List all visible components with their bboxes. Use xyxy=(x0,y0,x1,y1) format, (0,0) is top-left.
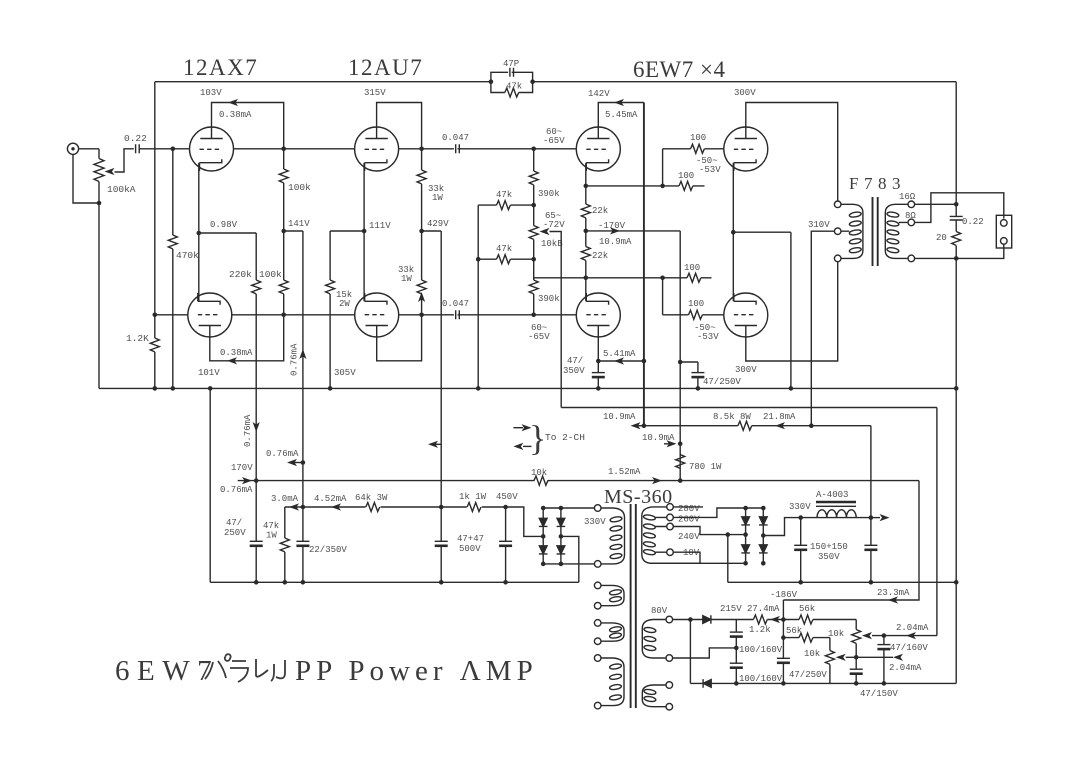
node 0.047 upper junction xyxy=(531,147,536,152)
svg-text:470k: 470k xyxy=(176,250,199,261)
wire V3 cathode column with 22k pair xyxy=(585,163,587,302)
wire ground rail A xyxy=(99,387,956,389)
capacitor 22/350V xyxy=(296,541,309,546)
wire V4a plate to OPT xyxy=(746,103,838,202)
resistor 1.2k bias xyxy=(753,615,767,624)
tube V4b 6EW7 power lower xyxy=(724,293,768,337)
tube V3b 6EW7 driver lower xyxy=(576,293,620,337)
svg-text:300V: 300V xyxy=(735,365,757,375)
svg-text:23.3mA: 23.3mA xyxy=(877,588,910,598)
diode bridge1 LT xyxy=(539,518,548,526)
resistor 33k 1W upper xyxy=(417,149,426,231)
node 47k column ground xyxy=(476,386,481,391)
arrow 0.38mA plate V1a xyxy=(228,99,238,106)
svg-text:3.0mA: 3.0mA xyxy=(271,494,299,504)
node border PSU rail xyxy=(954,580,959,585)
node 47P left xyxy=(489,79,494,84)
node 47/250V left rail xyxy=(254,580,259,585)
wire 141V column xyxy=(302,231,304,541)
arrow 0.76mA stub xyxy=(290,462,303,464)
node V2b plate row xyxy=(419,313,424,318)
potentiometer 10k lower xyxy=(825,638,845,684)
jack terminal bottom xyxy=(1001,238,1008,245)
svg-text:100/160V: 100/160V xyxy=(739,645,783,655)
arrow 5.41mA xyxy=(614,357,624,364)
node bridge2 mid-left xyxy=(743,532,748,537)
wire wiper to bias rail xyxy=(550,232,562,408)
resistor 390k upper xyxy=(529,171,538,185)
svg-text:141V: 141V xyxy=(288,219,310,229)
resistor 33k 1W lower xyxy=(417,231,426,315)
svg-text:47k: 47k xyxy=(496,244,512,254)
wire 47/150V xyxy=(855,657,857,683)
svg-text:10.9mA: 10.9mA xyxy=(599,237,632,247)
diode bridge2 LB xyxy=(741,545,750,553)
svg-text:47k: 47k xyxy=(263,521,279,531)
arrow 0.76mA down tail xyxy=(253,422,260,432)
capacitor 47+47 500V b xyxy=(499,541,512,546)
node grid V1 xyxy=(171,147,176,152)
arrow 21.8mA xyxy=(775,422,785,429)
arrow 0.76mA on 170V line xyxy=(242,477,252,484)
node bridge2 mid-right xyxy=(761,533,766,538)
resistor 100 grid stopper V4a xyxy=(663,144,725,153)
svg-text:150+150: 150+150 xyxy=(810,542,848,552)
node wiper1 cap xyxy=(882,633,887,638)
node 64k line to 429V column xyxy=(439,505,444,510)
wire jack ground side xyxy=(73,154,99,203)
node feedback to grid row xyxy=(153,313,158,318)
wire 8.5k line xyxy=(644,425,871,427)
capacitor 150+150 a xyxy=(794,545,807,550)
svg-text:350V: 350V xyxy=(818,552,840,562)
svg-text:100k: 100k xyxy=(288,182,311,193)
node V3b plate xyxy=(596,359,601,364)
svg-text:0.047: 0.047 xyxy=(442,133,469,143)
arrow 10.9mA into supply column xyxy=(633,425,644,427)
svg-text:305V: 305V xyxy=(334,368,356,378)
wire 450V to bridge1 xyxy=(506,507,544,536)
arrow B+ out xyxy=(871,517,880,519)
node 141V column to 64k line xyxy=(301,505,306,510)
node bridge1 mid-right xyxy=(559,534,564,539)
svg-text:111V: 111V xyxy=(369,221,391,231)
svg-text:1W: 1W xyxy=(266,531,277,541)
svg-text:100: 100 xyxy=(690,133,706,143)
node cap 150 a ground xyxy=(798,580,803,585)
wire plate row to cap 0.047 xyxy=(398,148,534,150)
wire bias feed column xyxy=(936,408,938,636)
node 47/250V right ground xyxy=(696,386,701,391)
capacitor 150+150 b xyxy=(864,545,877,550)
wire 310V column xyxy=(811,231,834,426)
svg-text:64k 3W: 64k 3W xyxy=(355,493,388,503)
arrow 2.04mA upper xyxy=(906,632,916,639)
wire 47/250V bias to rail xyxy=(782,663,784,684)
arrow 10.9mA into 780 node xyxy=(664,443,673,445)
node 47k bleeder rail xyxy=(283,580,288,585)
wire 47k column xyxy=(477,205,479,388)
node bridge2 top xyxy=(743,506,748,511)
wire cathode row upper to link column xyxy=(586,185,663,187)
wire V4b plate to OPT xyxy=(746,262,838,361)
node link upper xyxy=(660,184,665,189)
bridge1 mid-right wire xyxy=(561,536,579,582)
wire ground drop column xyxy=(209,388,211,582)
arrow 0.38mA V1b xyxy=(227,357,237,364)
svg-text:780 1W: 780 1W xyxy=(689,462,722,472)
svg-text:0.22: 0.22 xyxy=(962,217,984,227)
svg-text:8Ω: 8Ω xyxy=(905,211,916,221)
svg-text:47P: 47P xyxy=(503,59,519,69)
svg-text:310V: 310V xyxy=(808,220,830,230)
wire pot wiper to cap xyxy=(115,149,134,172)
diode bridge2 LT xyxy=(741,517,750,525)
svg-text:315V: 315V xyxy=(364,88,386,98)
svg-text:20: 20 xyxy=(936,233,947,243)
wire grid row lower V1b xyxy=(155,314,355,316)
OPT secondary coil xyxy=(885,204,908,258)
wire V1b plate wrap xyxy=(210,315,284,361)
potentiometer 10k upper xyxy=(852,620,872,658)
arrows To 2-CH xyxy=(513,424,531,450)
OPT secondary terminal 8ohm xyxy=(908,219,915,226)
resistor 22k upper xyxy=(581,204,590,218)
svg-text:-186V: -186V xyxy=(770,590,798,600)
wire cap 150 b xyxy=(870,518,872,583)
resistor 47k lower coupling xyxy=(478,255,534,264)
wire top feedback rail left xyxy=(155,81,491,83)
resistor 47k upper coupling xyxy=(478,201,534,210)
node 220k column to 170V line xyxy=(254,478,259,483)
wire 47/250V to rail xyxy=(255,481,257,583)
resistor 10k on 170V line xyxy=(534,476,548,485)
svg-text:8.5k 8W: 8.5k 8W xyxy=(713,412,751,422)
node 141V xyxy=(281,229,286,234)
svg-text:390k: 390k xyxy=(538,189,560,199)
capacitor 47P feedback xyxy=(491,68,533,82)
resistor 1.2K feedback shunt xyxy=(150,315,159,389)
node choke input xyxy=(798,515,803,520)
wire cap to grid V1 xyxy=(139,148,190,150)
wire 16ohm to border xyxy=(915,203,957,205)
svg-text:56k: 56k xyxy=(786,626,802,636)
arrow 3.0mA xyxy=(289,503,299,510)
choke A-4003 coil xyxy=(817,510,856,518)
capacitor 47/250V right xyxy=(691,373,704,378)
wire right border lower xyxy=(955,258,957,683)
node bridge1 top xyxy=(541,506,546,511)
wire -170V column xyxy=(679,231,681,481)
wire link column lower xyxy=(662,278,664,315)
node 80V top xyxy=(688,617,693,622)
wire cap stub xyxy=(680,361,698,363)
resistor 64k 3W xyxy=(366,502,381,512)
svg-text:22k: 22k xyxy=(592,206,608,216)
wire 142V supply column xyxy=(643,103,645,426)
svg-text:0.76mA: 0.76mA xyxy=(290,343,300,376)
MS-360 left winding W2 xyxy=(594,620,624,645)
arrow 5.45mA xyxy=(614,99,624,106)
svg-text:1.2K: 1.2K xyxy=(126,333,149,344)
jack terminal top xyxy=(1001,220,1008,227)
wire 47/350V xyxy=(597,361,599,388)
MS-360 secondary HV coil xyxy=(642,507,700,563)
wire 170V line xyxy=(238,480,919,482)
arrow stub 429V column xyxy=(431,443,441,445)
svg-text:47/250V: 47/250V xyxy=(789,670,827,680)
resistor 100 lower spare xyxy=(663,273,712,282)
node 47/150V rail xyxy=(854,681,859,686)
svg-text:330V: 330V xyxy=(584,517,606,527)
node bridge1 bottom xyxy=(541,562,546,567)
wire grid row upper left xyxy=(233,148,355,150)
svg-text:To 2-CH: To 2-CH xyxy=(545,432,585,443)
OPT primary terminal top xyxy=(834,201,841,208)
OPT primary coil xyxy=(841,204,863,258)
wire bias rail B xyxy=(561,407,937,409)
wire cathode to 220k xyxy=(199,232,256,234)
svg-text:MS-360: MS-360 xyxy=(604,486,673,508)
svg-text:280V: 280V xyxy=(678,504,700,514)
node -186V junction xyxy=(781,617,786,622)
tube V3a 6EW7 driver upper xyxy=(576,127,620,171)
wire 8ohm to jack xyxy=(915,193,1004,223)
capacitor 47/250V left xyxy=(250,541,263,546)
node cap a rail xyxy=(439,580,444,585)
wire caps mid to 80V bottom xyxy=(673,648,737,658)
svg-text:47k: 47k xyxy=(496,190,512,200)
node 1.2K ground xyxy=(153,386,158,391)
HV terminals xyxy=(667,504,674,511)
svg-text:103V: 103V xyxy=(200,88,222,98)
resistor 100k upper plate load xyxy=(279,149,288,231)
capacitor 0.22 zobel xyxy=(950,216,963,220)
wire 47/250V right xyxy=(697,362,699,388)
resistor 20 zobel xyxy=(952,220,961,258)
wire cap 150 a xyxy=(800,518,802,583)
potentiometer 10kB xyxy=(529,226,549,240)
svg-text:12AU7: 12AU7 xyxy=(348,55,423,80)
svg-text:2.04mA: 2.04mA xyxy=(896,623,929,633)
OPT secondary terminal 16ohm xyxy=(908,201,915,208)
resistor 15k 2W xyxy=(326,231,335,388)
svg-text:390k: 390k xyxy=(538,294,560,304)
node 0.047 lower junction xyxy=(531,313,536,318)
svg-text:429V: 429V xyxy=(427,219,449,229)
wire V2 cathode column xyxy=(363,163,365,302)
MS-360 core xyxy=(631,504,636,708)
tube V1b 12AX7 lower xyxy=(188,293,232,337)
capacitor 100/160V upper xyxy=(730,632,743,637)
node 310V at 8.5k line xyxy=(809,423,814,428)
MS-360 left winding W1 xyxy=(594,582,624,609)
node 780 to 170V line xyxy=(678,478,683,483)
OPT secondary terminal common xyxy=(908,255,915,262)
svg-text:47/250V: 47/250V xyxy=(703,377,741,387)
capacitor 47/150V xyxy=(850,669,863,674)
capacitor 0.22 input xyxy=(136,144,140,153)
svg-text:260V: 260V xyxy=(678,515,700,525)
svg-text:100: 100 xyxy=(678,171,694,181)
wire cathode column V1 xyxy=(198,163,200,302)
svg-text:10kB: 10kB xyxy=(541,239,563,249)
svg-text:10k: 10k xyxy=(531,468,547,478)
node supply column bottom xyxy=(642,423,647,428)
svg-text:300V: 300V xyxy=(734,88,756,98)
svg-text:1W: 1W xyxy=(432,193,443,203)
wire ground column right xyxy=(790,232,792,388)
node wiper2 cap xyxy=(854,655,859,660)
node cathode V3a xyxy=(584,184,589,189)
node 56k lower junction xyxy=(781,635,786,640)
node 47/160V rail xyxy=(882,681,887,686)
svg-text:0.38mA: 0.38mA xyxy=(220,348,253,358)
svg-text:}: } xyxy=(529,418,546,458)
wire bridge2 output xyxy=(763,518,871,536)
capacitor 100/160V lower xyxy=(730,663,743,668)
svg-text:1.52mA: 1.52mA xyxy=(608,467,641,477)
diode bridge2 RB xyxy=(759,545,768,553)
wire wiper1 to bias feed xyxy=(872,635,937,637)
wire jack to pot top xyxy=(79,148,99,150)
node 100/160V rail xyxy=(734,681,739,686)
svg-text:-65V: -65V xyxy=(543,136,565,146)
svg-text:-72V: -72V xyxy=(543,220,565,230)
node bridge2 bottom xyxy=(743,561,748,566)
svg-text:0.76mA: 0.76mA xyxy=(220,485,253,495)
svg-text:100: 100 xyxy=(684,263,700,273)
svg-text:220k: 220k xyxy=(229,269,252,280)
svg-text:240V: 240V xyxy=(678,532,700,542)
arrow 23.3mA xyxy=(888,596,898,603)
arrow 27.4mA xyxy=(770,616,780,623)
chain column grid bias xyxy=(533,149,535,315)
resistor 220k tail xyxy=(252,233,261,481)
node 111V xyxy=(362,229,367,234)
svg-text:100/160V: 100/160V xyxy=(739,674,783,684)
node link lower xyxy=(660,276,665,281)
wire pot bottom to ground rail xyxy=(98,203,100,388)
wire B+ column xyxy=(870,426,872,518)
wire D2 column xyxy=(689,620,691,684)
wire 429V column xyxy=(440,231,442,541)
svg-text:250V: 250V xyxy=(224,528,246,538)
MS-360 330V coil xyxy=(601,508,625,564)
svg-text:5.45mA: 5.45mA xyxy=(605,110,638,120)
input jack J1 xyxy=(67,143,78,154)
resistor 1k 1W xyxy=(467,502,482,512)
wire V2b plate wrap xyxy=(377,315,422,361)
svg-text:0.38mA: 0.38mA xyxy=(219,110,252,120)
node cap b rail xyxy=(503,580,508,585)
arrow up 141V column xyxy=(299,349,306,359)
svg-text:350V: 350V xyxy=(563,366,585,376)
node 15k ground xyxy=(328,386,333,391)
OPT primary terminal bottom xyxy=(834,255,841,262)
wire 100/160V column xyxy=(735,620,737,684)
svg-text:F783: F783 xyxy=(849,174,906,193)
node 47k lower junction xyxy=(531,257,536,262)
wire lower row to cap 0.047 xyxy=(398,314,534,316)
wire 240V feed xyxy=(673,527,745,535)
svg-text:100k: 100k xyxy=(259,269,282,280)
svg-text:142V: 142V xyxy=(588,89,610,99)
svg-text:0.22: 0.22 xyxy=(124,133,147,144)
svg-text:47/: 47/ xyxy=(567,356,583,366)
node ground column xyxy=(789,386,794,391)
node 47P right xyxy=(530,79,535,84)
OPT primary terminal mid xyxy=(834,228,841,235)
node cathodes V1 xyxy=(197,231,202,236)
MS-360 80V winding xyxy=(642,616,672,661)
wire 260V feed xyxy=(673,508,763,517)
node common border xyxy=(954,256,959,261)
svg-text:2.04mA: 2.04mA xyxy=(889,663,922,673)
wire 280V feed xyxy=(673,506,703,508)
PSU ground rail right xyxy=(728,581,956,583)
svg-text:12AX7: 12AX7 xyxy=(183,55,258,80)
svg-text:100: 100 xyxy=(688,299,704,309)
arrow up on 33k column xyxy=(418,292,425,302)
svg-text:10k: 10k xyxy=(804,649,820,659)
wire cap b xyxy=(505,507,507,582)
wire 240V ground column xyxy=(727,535,729,583)
node 22/350V rail xyxy=(301,580,306,585)
node V2a plate row xyxy=(419,147,424,152)
svg-text:0.76mA: 0.76mA xyxy=(266,449,299,459)
wire 10V feed xyxy=(650,552,746,563)
resistor 100 upper spare xyxy=(663,181,705,190)
bridge1 bottom wire xyxy=(543,563,594,565)
node 0.76mA stub xyxy=(301,460,306,465)
capacitor 47/250V bias xyxy=(777,658,790,663)
diode bridge1 RB xyxy=(557,546,566,554)
arrow 2.04mA lower xyxy=(893,654,903,661)
wire 47/160V xyxy=(883,636,885,684)
tube V4a 6EW7 power upper xyxy=(724,127,768,171)
bridge2 left branch xyxy=(745,508,747,563)
wire 215V line xyxy=(673,619,784,621)
svg-text:450V: 450V xyxy=(496,492,518,502)
svg-text:-65V: -65V xyxy=(528,332,550,342)
resistor 780 1W xyxy=(674,455,687,469)
arrow -170V run xyxy=(610,227,620,234)
tube V2a 12AU7 upper xyxy=(355,127,399,171)
wire V3b plate to supply column xyxy=(598,337,644,361)
tube V1a 12AX7 upper xyxy=(190,127,234,171)
diode bias D2 xyxy=(703,679,711,688)
node 780 junction xyxy=(678,442,683,447)
wire grid rows to 6EW7 xyxy=(534,149,577,315)
svg-text:80V: 80V xyxy=(651,606,668,616)
node 240V ground tap xyxy=(726,532,731,537)
node 47/350V ground xyxy=(596,386,601,391)
wire V4 cathode column xyxy=(732,163,734,302)
MS-360 left winding W3 xyxy=(594,655,624,709)
bridge1 right branch xyxy=(560,508,562,564)
svg-text:1W: 1W xyxy=(401,274,412,284)
node -170V cap stub xyxy=(678,360,683,365)
node 470k ground xyxy=(171,386,176,391)
capacitor 47/160V xyxy=(877,645,890,650)
node V4 cathodes xyxy=(731,230,736,235)
svg-text:1k 1W: 1k 1W xyxy=(459,492,487,502)
capacitor 47/350V xyxy=(592,373,605,378)
resistor 22k lower xyxy=(581,247,590,261)
svg-text:0.98V: 0.98V xyxy=(210,220,238,230)
node V1b plate row xyxy=(281,313,286,318)
